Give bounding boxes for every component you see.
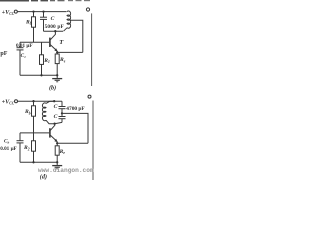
ground (b) bbox=[52, 75, 62, 82]
wire feedback to emitter (b) bbox=[57, 51, 83, 53]
resistor R2 (d) bbox=[32, 133, 36, 162]
inductor L tank coil (d) bbox=[43, 101, 55, 124]
wire diagonal to coil bottom (b) bbox=[64, 28, 68, 31]
terminal +Vcc (b) bbox=[14, 10, 17, 13]
svg-text:C: C bbox=[51, 16, 55, 22]
svg-text:Re: Re bbox=[59, 149, 66, 155]
resistor R1 (b) bbox=[40, 42, 44, 75]
wire coil tap feedback top (b) bbox=[70, 20, 83, 52]
node ground junction (b) bbox=[56, 74, 58, 76]
svg-text:R1: R1 bbox=[43, 58, 50, 64]
node Rb top junction (b) bbox=[32, 10, 34, 12]
svg-text:0.01 µF: 0.01 µF bbox=[16, 43, 33, 49]
svg-text:pF: pF bbox=[0, 51, 7, 57]
node collector junction (b) bbox=[54, 30, 56, 32]
ground (d) bbox=[52, 162, 62, 169]
wire collector node line (b) bbox=[44, 30, 64, 32]
terminal +Vcc (d) bbox=[15, 100, 18, 103]
resistor Re (d) bbox=[55, 146, 59, 163]
svg-text:C: C bbox=[54, 114, 58, 120]
svg-text:(d): (d) bbox=[40, 174, 47, 181]
transistor emitter lead with arrow (d) bbox=[50, 135, 56, 141]
svg-text:Re: Re bbox=[59, 57, 66, 63]
transistor T emitter lead with arrow (b) bbox=[50, 45, 56, 51]
transistor collector lead (d) bbox=[50, 124, 54, 131]
node capacitor midpoint (d) bbox=[61, 112, 63, 114]
transistor base bar (d) bbox=[49, 128, 51, 137]
svg-text:T: T bbox=[59, 39, 64, 46]
svg-text:C: C bbox=[54, 104, 58, 110]
wire emitter node (d) bbox=[56, 142, 58, 147]
wire feedback from cap midpoint (d) bbox=[62, 113, 88, 143]
node C top junction (b) bbox=[42, 10, 44, 12]
terminal output (d) bbox=[88, 95, 91, 98]
node Rb top junction (d) bbox=[32, 100, 34, 102]
cropped text remnants along top edge bbox=[0, 0, 90, 2]
transistor T collector lead (b) bbox=[50, 31, 55, 40]
node R2 bottom junction (d) bbox=[32, 161, 34, 163]
capacitor C lower (d) bbox=[55, 113, 66, 123]
svg-text:4700 pF: 4700 pF bbox=[66, 106, 85, 112]
inductor L tank coil (b) bbox=[67, 11, 71, 28]
wire bottom rail (b) bbox=[20, 74, 57, 76]
transistor T base bar (b) bbox=[49, 38, 51, 47]
wire base lead (b) bbox=[20, 41, 49, 43]
svg-text:R2: R2 bbox=[23, 145, 30, 151]
wire base lead (d) bbox=[20, 132, 49, 134]
svg-text:0.01 µF: 0.01 µF bbox=[0, 146, 17, 152]
wire top rail (b) bbox=[17, 11, 66, 13]
resistor Rb (b) bbox=[32, 12, 36, 43]
node collector junction (d) bbox=[53, 123, 55, 125]
wire top rail (d) bbox=[18, 100, 62, 102]
wire feedback to emitter (d) bbox=[57, 142, 88, 144]
svg-text:(b): (b) bbox=[49, 84, 56, 91]
resistor Rb (d) bbox=[32, 101, 36, 133]
node ground junction (d) bbox=[56, 161, 58, 163]
node emitter junction (b) bbox=[56, 51, 58, 53]
wire right edge line (b) bbox=[91, 13, 93, 86]
svg-text:Cb: Cb bbox=[4, 139, 9, 145]
svg-text:+VCC: +VCC bbox=[2, 9, 15, 16]
node R1 bottom junction (b) bbox=[40, 74, 42, 76]
capacitor Cb 0.01uF (d) bbox=[17, 133, 24, 162]
capacitor C1 0.01uF (b) bbox=[17, 42, 24, 75]
svg-text:+VCC: +VCC bbox=[2, 98, 15, 105]
resistor Re (b) bbox=[55, 54, 59, 75]
wire bottom rail (d) bbox=[20, 161, 57, 163]
terminal output (b) bbox=[86, 8, 89, 11]
svg-text:Rb: Rb bbox=[25, 20, 32, 26]
wire emitter node (b) bbox=[56, 51, 58, 54]
svg-text:Rb: Rb bbox=[24, 109, 31, 115]
node emitter junction (d) bbox=[56, 142, 58, 144]
wire right edge line (d) bbox=[92, 101, 94, 181]
svg-text:5000 pF: 5000 pF bbox=[45, 24, 65, 30]
svg-text:C1: C1 bbox=[21, 53, 26, 59]
capacitor C upper 4700pF (d) bbox=[59, 101, 66, 113]
capacitor C 5000pF (b) bbox=[40, 12, 47, 32]
node coil top junction (d) bbox=[53, 100, 55, 102]
